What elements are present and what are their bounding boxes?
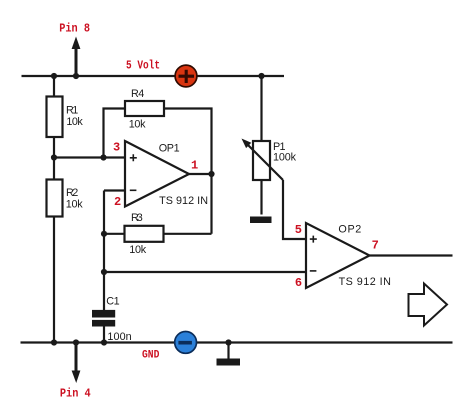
svg-text:2: 2 [114, 195, 121, 209]
svg-text:10k: 10k [66, 116, 83, 128]
svg-text:R1: R1 [66, 105, 78, 117]
svg-text:OP1: OP1 [159, 143, 180, 155]
svg-text:R3: R3 [131, 212, 143, 224]
svg-text:R4: R4 [131, 88, 144, 100]
svg-text:C1: C1 [106, 296, 119, 308]
svg-text:Pin 4: Pin 4 [60, 388, 91, 401]
svg-text:3: 3 [113, 140, 120, 154]
svg-text:TS 912 IN: TS 912 IN [339, 276, 391, 288]
svg-text:GND: GND [142, 349, 159, 362]
svg-text:10k: 10k [129, 244, 146, 256]
svg-text:10k: 10k [129, 119, 146, 131]
svg-text:10k: 10k [66, 198, 83, 210]
svg-text:7: 7 [372, 239, 379, 253]
svg-text:TS 912 IN: TS 912 IN [159, 195, 208, 207]
svg-text:Pin 8: Pin 8 [59, 23, 90, 36]
svg-text:6: 6 [295, 276, 302, 290]
svg-text:100k: 100k [273, 152, 297, 164]
svg-text:OP2: OP2 [338, 223, 361, 235]
svg-text:5 Volt: 5 Volt [126, 60, 160, 73]
svg-text:R2: R2 [66, 187, 78, 199]
svg-text:1: 1 [191, 158, 198, 172]
svg-text:100n: 100n [107, 331, 131, 343]
svg-text:5: 5 [295, 223, 302, 237]
